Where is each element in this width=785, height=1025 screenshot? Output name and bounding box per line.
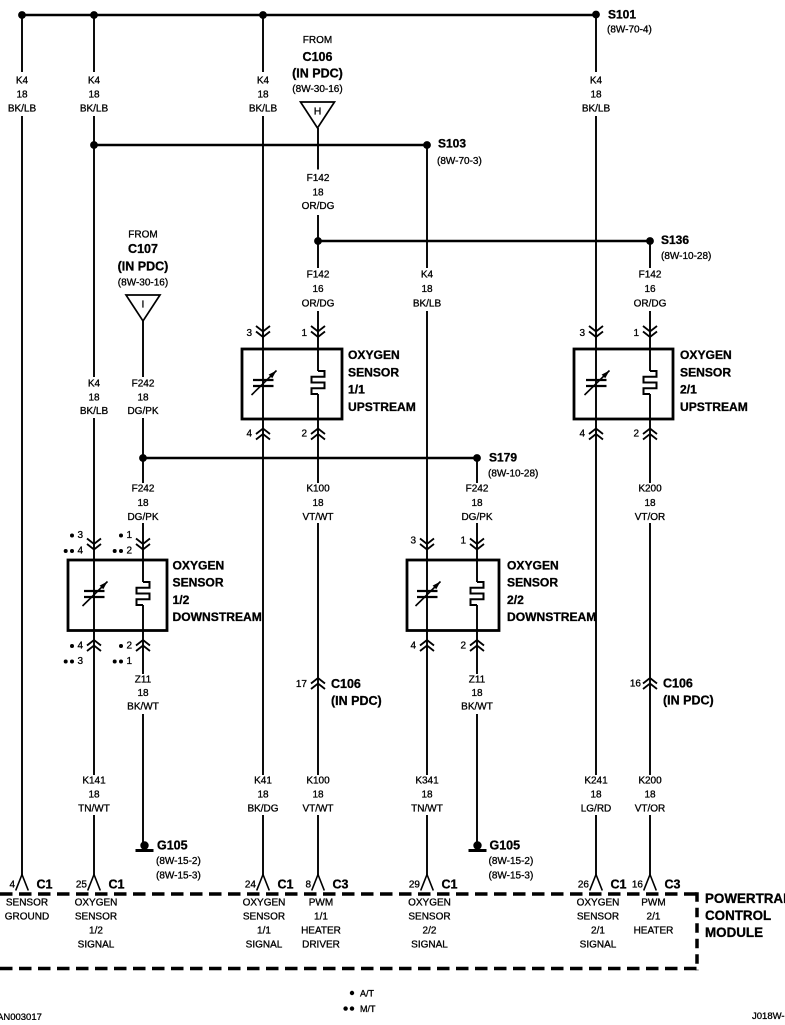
svg-text:VT/OR: VT/OR: [635, 804, 666, 815]
svg-text:(IN PDC): (IN PDC): [292, 67, 343, 81]
svg-text:2/2: 2/2: [423, 926, 437, 937]
svg-text:BK/LB: BK/LB: [249, 104, 278, 115]
svg-text:18: 18: [137, 393, 149, 404]
svg-text:(8W-10-28): (8W-10-28): [488, 469, 538, 480]
svg-text:1/1: 1/1: [314, 912, 328, 923]
svg-text:SIGNAL: SIGNAL: [411, 940, 448, 951]
svg-text:3: 3: [77, 656, 83, 667]
svg-text:K141: K141: [82, 776, 106, 787]
svg-text:3: 3: [77, 530, 83, 541]
svg-text:2: 2: [633, 429, 639, 440]
svg-text:BK/DG: BK/DG: [247, 804, 278, 815]
svg-text:2/1: 2/1: [680, 383, 697, 397]
svg-text:18: 18: [88, 790, 100, 801]
svg-text:4: 4: [77, 546, 83, 557]
svg-text:4: 4: [246, 429, 252, 440]
svg-text:H: H: [314, 106, 322, 118]
svg-text:SENSOR: SENSOR: [348, 365, 399, 379]
svg-text:PWM: PWM: [641, 898, 665, 909]
svg-text:F142: F142: [639, 270, 662, 281]
svg-text:K41: K41: [254, 776, 272, 787]
svg-text:3: 3: [246, 328, 252, 339]
svg-text:DG/PK: DG/PK: [461, 512, 492, 523]
svg-text:OXYGEN: OXYGEN: [75, 898, 118, 909]
svg-text:SENSOR: SENSOR: [75, 912, 117, 923]
svg-text:SIGNAL: SIGNAL: [580, 940, 617, 951]
svg-text:G105: G105: [490, 839, 521, 853]
svg-text:PWM: PWM: [309, 898, 333, 909]
svg-text:OXYGEN: OXYGEN: [577, 898, 620, 909]
svg-text:2/1: 2/1: [591, 926, 605, 937]
svg-text:1/2: 1/2: [173, 593, 190, 607]
svg-text:(8W-15-3): (8W-15-3): [156, 871, 201, 882]
svg-text:K241: K241: [584, 776, 608, 787]
svg-text:C1: C1: [278, 878, 294, 892]
svg-text:VT/WT: VT/WT: [302, 804, 333, 815]
svg-text:2/1: 2/1: [647, 912, 661, 923]
svg-text:18: 18: [88, 90, 100, 101]
svg-text:K4: K4: [88, 76, 101, 87]
svg-text:HEATER: HEATER: [301, 926, 341, 937]
svg-text:OR/DG: OR/DG: [634, 299, 667, 310]
svg-text:4: 4: [77, 641, 83, 652]
svg-text:LG/RD: LG/RD: [581, 804, 612, 815]
svg-text:18: 18: [471, 498, 483, 509]
svg-text:2: 2: [460, 641, 466, 652]
svg-text:SIGNAL: SIGNAL: [78, 940, 115, 951]
svg-text:SENSOR: SENSOR: [243, 912, 285, 923]
svg-text:18: 18: [421, 790, 433, 801]
svg-text:I: I: [142, 299, 145, 311]
svg-text:OXYGEN: OXYGEN: [507, 559, 559, 573]
svg-text:2/2: 2/2: [507, 593, 524, 607]
svg-text:18: 18: [590, 790, 602, 801]
svg-text:J018W-: J018W-: [752, 1011, 785, 1020]
svg-text:18: 18: [257, 90, 269, 101]
svg-text:16: 16: [632, 880, 644, 891]
svg-text:18: 18: [312, 790, 324, 801]
svg-text:AN003017: AN003017: [0, 1012, 42, 1020]
svg-text:18: 18: [644, 498, 656, 509]
svg-text:(8W-15-2): (8W-15-2): [156, 856, 201, 867]
svg-text:F242: F242: [132, 484, 155, 495]
svg-text:BK/LB: BK/LB: [80, 406, 109, 417]
svg-text:(8W-70-3): (8W-70-3): [437, 156, 482, 167]
svg-text:3: 3: [410, 536, 416, 547]
svg-text:K100: K100: [306, 484, 330, 495]
svg-text:SIGNAL: SIGNAL: [246, 940, 283, 951]
svg-text:K200: K200: [638, 776, 662, 787]
svg-text:18: 18: [590, 90, 602, 101]
svg-text:VT/OR: VT/OR: [635, 512, 666, 523]
svg-text:K100: K100: [306, 776, 330, 787]
svg-text:C106: C106: [331, 677, 361, 691]
svg-text:SENSOR: SENSOR: [507, 576, 558, 590]
svg-text:SENSOR: SENSOR: [173, 576, 224, 590]
svg-text:A/T: A/T: [360, 989, 375, 999]
svg-text:FROM: FROM: [128, 230, 157, 241]
svg-text:UPSTREAM: UPSTREAM: [348, 400, 416, 414]
svg-text:SENSOR: SENSOR: [6, 898, 48, 909]
svg-text:BK/WT: BK/WT: [127, 702, 159, 713]
svg-text:1: 1: [126, 656, 132, 667]
svg-text:SENSOR: SENSOR: [408, 912, 450, 923]
svg-text:2: 2: [126, 641, 132, 652]
svg-text:8: 8: [305, 880, 311, 891]
svg-text:2: 2: [301, 429, 307, 440]
svg-text:K4: K4: [16, 76, 29, 87]
svg-text:BK/LB: BK/LB: [582, 104, 611, 115]
svg-text:(IN PDC): (IN PDC): [663, 694, 714, 708]
svg-text:UPSTREAM: UPSTREAM: [680, 400, 748, 414]
svg-text:(8W-70-4): (8W-70-4): [607, 25, 652, 36]
svg-text:4: 4: [579, 429, 585, 440]
svg-text:1: 1: [460, 536, 466, 547]
svg-text:25: 25: [76, 880, 88, 891]
svg-text:C106: C106: [303, 50, 333, 64]
svg-text:1/1: 1/1: [257, 926, 271, 937]
svg-text:DG/PK: DG/PK: [127, 512, 158, 523]
svg-text:VT/WT: VT/WT: [302, 512, 333, 523]
svg-text:Z11: Z11: [469, 675, 486, 686]
svg-text:2: 2: [126, 546, 132, 557]
svg-text:BK/WT: BK/WT: [461, 702, 493, 713]
svg-text:18: 18: [88, 393, 100, 404]
svg-text:K341: K341: [415, 776, 439, 787]
svg-text:(IN PDC): (IN PDC): [118, 260, 169, 274]
svg-text:16: 16: [312, 284, 324, 295]
svg-text:1: 1: [301, 328, 307, 339]
svg-text:(IN PDC): (IN PDC): [331, 694, 382, 708]
svg-text:SENSOR: SENSOR: [680, 365, 731, 379]
svg-text:1/2: 1/2: [89, 926, 103, 937]
svg-text:18: 18: [312, 188, 324, 199]
svg-text:K4: K4: [590, 76, 603, 87]
svg-text:1/1: 1/1: [348, 383, 365, 397]
svg-text:(8W-10-28): (8W-10-28): [661, 251, 711, 262]
svg-text:M/T: M/T: [360, 1004, 376, 1014]
svg-text:OXYGEN: OXYGEN: [680, 348, 732, 362]
svg-text:4: 4: [410, 641, 416, 652]
svg-text:S136: S136: [661, 233, 689, 247]
svg-text:16: 16: [644, 284, 656, 295]
svg-text:OXYGEN: OXYGEN: [408, 898, 451, 909]
svg-text:C1: C1: [611, 878, 627, 892]
svg-text:MODULE: MODULE: [705, 925, 763, 940]
svg-text:K4: K4: [88, 379, 101, 390]
svg-text:18: 18: [137, 498, 149, 509]
svg-text:17: 17: [296, 679, 308, 690]
svg-text:K4: K4: [257, 76, 270, 87]
svg-text:1: 1: [633, 328, 639, 339]
svg-text:FROM: FROM: [303, 35, 332, 46]
svg-text:F242: F242: [132, 379, 155, 390]
svg-text:18: 18: [421, 284, 433, 295]
svg-text:F242: F242: [466, 484, 489, 495]
svg-text:(8W-15-2): (8W-15-2): [489, 856, 534, 867]
svg-text:C107: C107: [128, 242, 158, 256]
svg-text:(8W-15-3): (8W-15-3): [489, 871, 534, 882]
svg-text:F142: F142: [307, 270, 330, 281]
svg-text:26: 26: [578, 880, 590, 891]
svg-text:HEATER: HEATER: [634, 926, 674, 937]
svg-text:POWERTRAIN: POWERTRAIN: [705, 891, 785, 906]
svg-text:OXYGEN: OXYGEN: [348, 348, 400, 362]
svg-text:C1: C1: [442, 878, 458, 892]
svg-text:F142: F142: [307, 173, 330, 184]
svg-text:3: 3: [579, 328, 585, 339]
svg-text:G105: G105: [157, 839, 188, 853]
svg-text:TN/WT: TN/WT: [78, 804, 110, 815]
svg-text:DOWNSTREAM: DOWNSTREAM: [173, 610, 262, 624]
svg-text:16: 16: [630, 679, 642, 690]
svg-text:S179: S179: [489, 451, 517, 465]
svg-text:C3: C3: [665, 878, 681, 892]
svg-text:GROUND: GROUND: [5, 912, 49, 923]
svg-text:C3: C3: [333, 878, 349, 892]
svg-text:C1: C1: [109, 878, 125, 892]
svg-text:OXYGEN: OXYGEN: [243, 898, 286, 909]
svg-text:SENSOR: SENSOR: [577, 912, 619, 923]
svg-text:DRIVER: DRIVER: [302, 940, 340, 951]
svg-text:18: 18: [644, 790, 656, 801]
svg-text:18: 18: [257, 790, 269, 801]
svg-text:DOWNSTREAM: DOWNSTREAM: [507, 610, 596, 624]
svg-text:C106: C106: [663, 677, 693, 691]
svg-text:TN/WT: TN/WT: [411, 804, 443, 815]
svg-text:DG/PK: DG/PK: [127, 406, 158, 417]
svg-text:K4: K4: [421, 270, 434, 281]
svg-text:18: 18: [137, 688, 149, 699]
svg-text:OR/DG: OR/DG: [302, 299, 335, 310]
svg-text:4: 4: [9, 880, 15, 891]
svg-text:18: 18: [471, 688, 483, 699]
svg-text:BK/LB: BK/LB: [80, 104, 109, 115]
svg-text:BK/LB: BK/LB: [8, 104, 37, 115]
svg-text:18: 18: [312, 498, 324, 509]
svg-text:(8W-30-16): (8W-30-16): [292, 84, 342, 95]
svg-text:OXYGEN: OXYGEN: [173, 559, 225, 573]
svg-text:(8W-30-16): (8W-30-16): [118, 278, 168, 289]
svg-text:C1: C1: [37, 878, 53, 892]
svg-text:BK/LB: BK/LB: [413, 299, 442, 310]
svg-text:K200: K200: [638, 484, 662, 495]
svg-text:18: 18: [16, 90, 28, 101]
svg-text:1: 1: [126, 530, 132, 541]
svg-text:S101: S101: [608, 8, 636, 22]
svg-text:29: 29: [409, 880, 421, 891]
svg-text:24: 24: [245, 880, 257, 891]
svg-text:Z11: Z11: [135, 675, 152, 686]
svg-text:OR/DG: OR/DG: [302, 201, 335, 212]
svg-text:CONTROL: CONTROL: [705, 908, 771, 923]
svg-text:S103: S103: [438, 137, 466, 151]
